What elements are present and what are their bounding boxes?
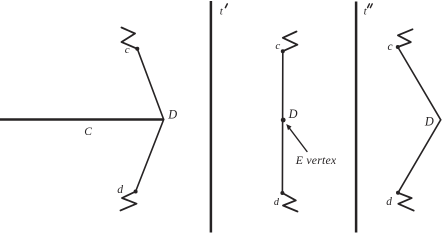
wire c-to-D (left diagram) [137,49,163,120]
vertex dot c (left diagram upper) [135,47,139,51]
vertex dot d (left diagram lower) [134,190,138,194]
time-slice bar t' [210,1,213,233]
svg-text:D: D [288,107,298,121]
zigzag c-end (middle diagram, upper spring) [283,32,298,52]
svg-text:E vertex: E vertex [295,153,337,167]
svg-text:D: D [167,107,177,121]
wire D-to-d (left diagram) [136,120,164,192]
node D dot (middle diagram) [281,118,286,123]
arrow E-vertex pointer [289,127,308,152]
svg-text:d: d [386,196,392,208]
zigzag c-end (left diagram, upper spring) [122,28,138,49]
vertex dot d (right diagram lower) [396,191,400,195]
svg-text:d: d [274,197,280,208]
vertex dot c (right diagram upper) [396,45,400,49]
prime mark of t' [225,4,227,8]
svg-text:c: c [388,41,393,53]
zigzag c-end (right diagram, upper spring) [398,29,413,47]
time-slice bar t'' [355,2,358,233]
wire D-to-d (right diagram) [398,120,441,193]
zigzag d-end (middle diagram, lower spring) [282,193,297,212]
svg-text:c: c [125,44,130,56]
svg-text:t: t [364,5,368,17]
svg-text:C: C [84,126,92,138]
wire c-to-D (right diagram) [398,47,441,120]
zigzag d-end (right diagram, lower spring) [398,193,414,211]
zigzag d-end (left diagram, lower spring) [121,192,137,211]
vertex dot c (middle diagram upper) [281,49,285,53]
wire c-to-d vertical (middle diagram) [281,51,283,193]
wire C (horizontal line into vertex D, left diagram) [0,118,164,121]
svg-text:t: t [220,5,224,17]
vertex dot d (middle diagram lower) [280,191,284,195]
svg-text:d: d [117,183,123,196]
svg-text:c: c [275,40,280,52]
double prime marks of t'' [368,4,370,8]
svg-text:D: D [424,115,434,129]
